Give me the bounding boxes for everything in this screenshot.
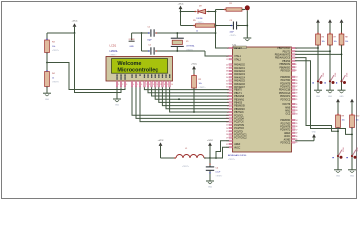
capacitor C4 xyxy=(206,167,222,178)
svg-text:38: 38 xyxy=(226,71,228,73)
svg-text:PB1/T1: PB1/T1 xyxy=(283,51,291,53)
svg-text:10k: 10k xyxy=(356,120,359,122)
svg-text:5: 5 xyxy=(227,102,228,104)
svg-text:AGND: AGND xyxy=(284,138,291,141)
LCD pin names xyxy=(116,74,170,79)
svg-text:3: 3 xyxy=(126,84,127,86)
wire LCD RW to U1 xyxy=(136,87,229,118)
svg-text:35: 35 xyxy=(226,80,228,82)
junction R2/rail xyxy=(193,111,195,113)
U1 right pin stubs and pin numbers xyxy=(292,47,298,144)
svg-text:1k: 1k xyxy=(196,31,198,33)
svg-text:PC2/TCK: PC2/TCK xyxy=(234,122,244,124)
svg-text:OC2: OC2 xyxy=(286,114,291,116)
junction R8/rail xyxy=(341,54,343,56)
svg-text:GND: GND xyxy=(312,132,317,134)
svg-text:SW3: SW3 xyxy=(345,73,347,77)
svg-text:32: 32 xyxy=(296,107,298,109)
junction C2 branch xyxy=(141,32,143,51)
svg-text:18: 18 xyxy=(296,89,298,91)
svg-text:26: 26 xyxy=(226,128,228,130)
capacitor C1 xyxy=(147,27,157,42)
U1 part name xyxy=(228,154,247,161)
junction XTAL1 corner xyxy=(215,32,217,34)
ground (top right) xyxy=(243,38,251,41)
svg-text:LCD1: LCD1 xyxy=(110,44,117,48)
svg-text:PB2/AIN0: PB2/AIN0 xyxy=(234,95,245,98)
svg-text:6: 6 xyxy=(141,84,142,86)
wire LCD VSS to ground xyxy=(116,87,118,99)
svg-text:2: 2 xyxy=(227,93,228,95)
svg-text:GND: GND xyxy=(328,96,333,98)
power +VCC (R6) xyxy=(316,19,320,34)
ground (divider) xyxy=(43,93,51,101)
wire D9 to node xyxy=(206,11,215,13)
LED D10 xyxy=(242,6,250,10)
junction VCC branch xyxy=(215,157,217,159)
wire divider node to LCD VEE xyxy=(47,63,125,90)
svg-text:PB3/AIN1: PB3/AIN1 xyxy=(234,98,245,101)
resistor R3 xyxy=(45,39,60,54)
svg-text:PB6/MISO: PB6/MISO xyxy=(234,109,245,111)
svg-text:GND: GND xyxy=(340,96,345,98)
LCD pin stubs and numbers xyxy=(116,81,173,87)
svg-text:40: 40 xyxy=(226,64,228,66)
svg-text:21: 21 xyxy=(296,99,298,101)
svg-text:Welcome: Welcome xyxy=(117,61,141,67)
svg-text:ATMEGA16 DIP40: ATMEGA16 DIP40 xyxy=(228,154,247,157)
wire XTAL1 down to U1 xyxy=(216,33,230,48)
svg-text:22: 22 xyxy=(226,115,228,117)
wire node to R1 xyxy=(216,9,227,11)
svg-text:PD7/OC2: PD7/OC2 xyxy=(281,99,291,101)
svg-text:PA4/ADC4: PA4/ADC4 xyxy=(234,76,245,79)
svg-text:33: 33 xyxy=(226,87,228,89)
svg-text:+VCC: +VCC xyxy=(178,3,184,5)
svg-text:AREF: AREF xyxy=(284,132,291,135)
svg-text:10k: 10k xyxy=(334,41,337,43)
svg-text:PD1/TXD: PD1/TXD xyxy=(281,123,291,125)
ground (SW1) xyxy=(314,90,322,98)
svg-text:SW2: SW2 xyxy=(334,73,336,77)
svg-text:PA0/ADC0: PA0/ADC0 xyxy=(234,64,245,67)
power flag GND (right) xyxy=(312,132,317,141)
wire LED down to ground xyxy=(246,11,248,38)
svg-text:PA5/ADC5: PA5/ADC5 xyxy=(234,80,245,83)
svg-text:RESET: RESET xyxy=(234,48,242,50)
wire R5 to C3 xyxy=(215,25,233,27)
wire VCC to LCD VDD xyxy=(75,33,122,93)
svg-text:32: 32 xyxy=(296,133,298,135)
svg-text:PC0/SCL: PC0/SCL xyxy=(234,115,244,117)
wire U1 to R10 column xyxy=(295,61,352,135)
svg-text:PD7/OC2: PD7/OC2 xyxy=(281,143,291,145)
svg-text:10k: 10k xyxy=(322,41,325,43)
svg-text:0.1uF: 0.1uF xyxy=(216,172,222,174)
wire C3 to ground leg xyxy=(237,25,248,27)
svg-text:20: 20 xyxy=(296,96,298,98)
svg-text:14: 14 xyxy=(296,77,298,79)
ground (SW5) xyxy=(348,170,356,178)
wire U1 to R9 column xyxy=(295,58,338,132)
wire U1 to GND flag xyxy=(295,140,314,142)
svg-text:PD3/INT1: PD3/INT1 xyxy=(280,130,291,132)
svg-text:PB4/SS: PB4/SS xyxy=(282,61,290,63)
svg-text:<TEXT>: <TEXT> xyxy=(216,175,223,178)
ground (SW3) xyxy=(338,90,346,98)
svg-text:PB0/T0: PB0/T0 xyxy=(234,90,242,92)
resistor R8 xyxy=(339,33,348,47)
crystal X1 xyxy=(171,32,195,52)
svg-text:36: 36 xyxy=(226,77,228,79)
svg-text:8: 8 xyxy=(296,70,297,72)
svg-text:AREF: AREF xyxy=(234,143,241,146)
junction C3 right xyxy=(246,25,248,27)
svg-text:PD6/ICP1: PD6/ICP1 xyxy=(280,96,291,98)
svg-text:17: 17 xyxy=(296,86,298,88)
wire VCC rail to R3 xyxy=(47,33,75,40)
U1 right pin labels xyxy=(275,48,291,144)
svg-text:PC1/SDA: PC1/SDA xyxy=(234,118,244,121)
svg-text:<TEXT>: <TEXT> xyxy=(52,49,60,52)
junction divider node xyxy=(46,62,48,64)
node +VCC (left) xyxy=(72,20,78,33)
svg-text:PC3/TMS: PC3/TMS xyxy=(234,125,244,127)
inductor L1 xyxy=(174,148,206,168)
svg-text:LM016L: LM016L xyxy=(110,51,119,53)
LCD LCD1 labels xyxy=(110,44,119,57)
ground (SW2) xyxy=(326,90,334,98)
capacitor C2 xyxy=(147,45,157,61)
svg-text:<TEXT>: <TEXT> xyxy=(52,81,60,84)
junction VCC node xyxy=(209,157,211,159)
svg-text:4: 4 xyxy=(133,84,134,86)
svg-text:17: 17 xyxy=(296,129,298,131)
svg-text:DIODE: DIODE xyxy=(197,18,204,20)
svg-text:AIN1: AIN1 xyxy=(285,110,291,113)
svg-text:PD4/OC1B: PD4/OC1B xyxy=(279,90,291,92)
svg-text:AVCC: AVCC xyxy=(234,146,240,149)
U1 left pin stubs and pin numbers xyxy=(226,47,232,149)
LCD LCD1 body xyxy=(106,57,173,82)
node +VCC (top) xyxy=(178,3,184,25)
svg-text:PA6/ADC6: PA6/ADC6 xyxy=(234,83,245,86)
svg-text:GND: GND xyxy=(45,99,50,101)
wire rail A xyxy=(181,11,197,13)
resistor R1 xyxy=(224,3,244,11)
ground (C4) xyxy=(206,181,214,189)
svg-text:14: 14 xyxy=(296,120,298,122)
svg-text:AVCC: AVCC xyxy=(284,135,290,138)
svg-text:PA3/ADC3: PA3/ADC3 xyxy=(234,73,245,76)
svg-text:PB7/SCK: PB7/SCK xyxy=(234,112,244,114)
power +VCC (R7) xyxy=(328,19,332,34)
svg-text:30: 30 xyxy=(296,136,298,138)
wire R4 to ground xyxy=(46,87,48,94)
svg-text:SW1: SW1 xyxy=(322,73,324,77)
svg-text:8: 8 xyxy=(227,112,228,114)
svg-text:33: 33 xyxy=(296,110,298,112)
svg-text:PD0/RXD: PD0/RXD xyxy=(280,120,290,122)
wire bus LCD D0-D7 to U1 PB0-PB7 xyxy=(144,87,229,112)
svg-text:PD0/RXD: PD0/RXD xyxy=(280,77,290,79)
svg-text:GND: GND xyxy=(350,175,355,177)
resistor R10 xyxy=(350,114,360,129)
junction at VCC/R3 rail xyxy=(74,32,76,34)
wire LCD E to U1 xyxy=(140,87,229,121)
svg-text:2: 2 xyxy=(122,84,123,86)
svg-text:+VCC: +VCC xyxy=(158,140,164,142)
resistor R4 xyxy=(45,70,60,88)
svg-text:<TEXT>: <TEXT> xyxy=(186,49,194,52)
svg-text:PC7/TOSC2: PC7/TOSC2 xyxy=(234,138,247,140)
svg-text:<TEXT>: <TEXT> xyxy=(228,158,236,161)
LCD screen xyxy=(112,59,168,74)
svg-text:34: 34 xyxy=(296,113,298,115)
svg-text:Microcontrolleç: Microcontrolleç xyxy=(117,68,158,74)
junction R10/rail xyxy=(351,134,353,136)
resistor R9 xyxy=(336,114,345,129)
svg-text:XTAL2: XTAL2 xyxy=(234,58,241,61)
svg-text:15: 15 xyxy=(296,80,298,82)
svg-text:19: 19 xyxy=(296,93,298,95)
svg-text:POWER: POWER xyxy=(129,39,136,41)
svg-text:PB3/AIN1/OC0: PB3/AIN1/OC0 xyxy=(275,57,291,60)
wire XTAL1 rail xyxy=(132,32,216,34)
svg-text:9: 9 xyxy=(153,84,154,86)
svg-text:+VCC: +VCC xyxy=(72,20,78,22)
wire R3-R4 xyxy=(46,53,48,72)
svg-text:PB6/MISO: PB6/MISO xyxy=(280,67,291,69)
svg-text:25: 25 xyxy=(226,125,228,127)
svg-text:GND: GND xyxy=(316,96,321,98)
svg-text:PD2/INT0: PD2/INT0 xyxy=(280,127,291,129)
svg-text:PA7/ADC7: PA7/ADC7 xyxy=(234,86,245,89)
wire R6 to button SW1 xyxy=(317,45,319,90)
junction R7/rail xyxy=(329,50,331,52)
diode D9 xyxy=(195,6,210,24)
wire rail B xyxy=(181,25,196,27)
svg-text:<TEXT>: <TEXT> xyxy=(199,86,207,89)
power +VCC (R8) xyxy=(340,19,344,34)
svg-text:21: 21 xyxy=(296,142,298,144)
svg-text:PB7/SCK: PB7/SCK xyxy=(281,71,291,73)
svg-text:SW5: SW5 xyxy=(356,147,358,151)
svg-text:GND: GND xyxy=(115,105,120,107)
wire U1 to R8 column xyxy=(295,53,341,55)
wire R2 to PB7 rail xyxy=(193,88,195,112)
svg-text:23: 23 xyxy=(226,118,228,120)
svg-text:8: 8 xyxy=(149,84,150,86)
wire VCC node to C4 xyxy=(209,158,210,167)
svg-text:PB5/MOSI: PB5/MOSI xyxy=(280,64,291,66)
svg-text:3: 3 xyxy=(227,96,228,98)
wire VCC node to U1 VCC xyxy=(216,141,229,158)
wire XTAL2 rail xyxy=(142,51,230,56)
junction rail A tap xyxy=(180,11,182,13)
wire U1 to R7 column xyxy=(295,50,330,52)
svg-text:28: 28 xyxy=(226,134,228,136)
junction R6/rail xyxy=(317,47,319,49)
svg-text:12: 12 xyxy=(226,59,228,61)
microcontroller U1 body xyxy=(233,47,292,152)
svg-text:PB4/SS: PB4/SS xyxy=(234,103,242,105)
svg-text:PA2/ADC2: PA2/ADC2 xyxy=(234,70,245,73)
svg-text:14: 14 xyxy=(171,84,173,86)
wire LCD RS to U1 xyxy=(132,87,229,115)
wire VCC node to U1 AVCC xyxy=(210,147,229,158)
power flag GND (crystal caps) xyxy=(129,33,136,48)
resistor R7 xyxy=(328,33,337,47)
svg-text:PD1/TXD: PD1/TXD xyxy=(281,80,291,82)
svg-text:15: 15 xyxy=(296,123,298,125)
svg-text:PD3/INT1: PD3/INT1 xyxy=(280,87,291,89)
wire R8 to button SW3 xyxy=(341,45,343,90)
LCD text line2 xyxy=(117,68,158,74)
microcontroller U1 reference label xyxy=(233,43,237,47)
resistor R5 xyxy=(193,20,217,33)
svg-text:10k: 10k xyxy=(199,83,202,85)
resistor R2 xyxy=(192,74,207,89)
capacitor C3 xyxy=(230,20,240,37)
svg-text:PB0/T0/XCK: PB0/T0/XCK xyxy=(277,48,290,50)
svg-text:1: 1 xyxy=(118,84,119,86)
svg-text:SW4: SW4 xyxy=(342,147,344,151)
svg-text:PB5/MOSI: PB5/MOSI xyxy=(234,106,245,108)
svg-text:7: 7 xyxy=(146,84,147,86)
ground (SW4) xyxy=(334,170,342,178)
resistor R6 xyxy=(316,33,325,47)
wire C4 to ground xyxy=(209,170,210,181)
wire U1 to R6 column xyxy=(295,47,318,49)
svg-text:1k: 1k xyxy=(52,78,54,80)
svg-text:PC5/TDI: PC5/TDI xyxy=(234,131,243,133)
svg-text:34: 34 xyxy=(226,84,228,86)
svg-text:31: 31 xyxy=(296,104,298,106)
junction vertical-216 top xyxy=(215,10,217,34)
svg-text:13: 13 xyxy=(226,56,228,58)
wire L1 to VCC node xyxy=(204,157,210,159)
node +VCC (L1) xyxy=(158,140,176,158)
svg-text:<TEXT>: <TEXT> xyxy=(182,165,190,168)
wire R7 to button SW2 xyxy=(329,45,331,90)
svg-text:PC4/TDO: PC4/TDO xyxy=(234,128,244,130)
svg-text:1: 1 xyxy=(227,89,228,91)
power +VCC (R10) xyxy=(350,99,354,115)
svg-text:+VCC: +VCC xyxy=(191,63,197,65)
svg-text:AIN0: AIN0 xyxy=(285,106,291,109)
svg-text:7: 7 xyxy=(227,109,228,111)
svg-text:16: 16 xyxy=(296,83,298,85)
wire R9 to button SW4 xyxy=(337,128,339,170)
power +VCC (R9) xyxy=(336,99,340,115)
svg-text:PB2/AIN0/INT2: PB2/AIN0/INT2 xyxy=(275,54,291,57)
svg-text:GND: GND xyxy=(336,175,341,177)
svg-text:CRYSTAL: CRYSTAL xyxy=(186,45,195,48)
wire R10 to button SW5 xyxy=(351,128,353,170)
svg-text:PD2/INT0: PD2/INT0 xyxy=(280,83,291,85)
svg-text:GND: GND xyxy=(208,187,213,189)
svg-text:37: 37 xyxy=(226,74,228,76)
svg-text:6: 6 xyxy=(296,64,297,66)
node +VCC (U1 supply) xyxy=(207,140,213,158)
junction on PB3 rail xyxy=(178,98,180,100)
svg-text:GND: GND xyxy=(129,46,134,48)
ground (LCD VSS) xyxy=(113,99,121,107)
push button SW1 xyxy=(313,73,324,84)
svg-text:10k: 10k xyxy=(52,46,55,48)
svg-text:4: 4 xyxy=(227,99,228,101)
svg-text:<TEXT>: <TEXT> xyxy=(230,34,237,37)
U1 left pin labels xyxy=(234,46,248,149)
svg-text:10k: 10k xyxy=(342,120,345,122)
svg-text:39: 39 xyxy=(226,68,228,70)
svg-text:29: 29 xyxy=(226,137,228,139)
push button SW5 xyxy=(347,147,358,158)
svg-text:5: 5 xyxy=(137,84,138,86)
svg-text:9: 9 xyxy=(227,48,228,50)
svg-text:XCK/T0: XCK/T0 xyxy=(282,104,291,106)
svg-text:27: 27 xyxy=(226,131,228,133)
svg-text:PC6/TOSC1: PC6/TOSC1 xyxy=(234,135,247,137)
node +VCC (R2) xyxy=(191,63,197,75)
svg-text:16: 16 xyxy=(296,126,298,128)
LCD text line1 xyxy=(117,61,141,67)
svg-text:+VCC: +VCC xyxy=(207,140,213,142)
svg-text:PA1/ADC1: PA1/ADC1 xyxy=(234,67,245,70)
svg-text:PB1/T1: PB1/T1 xyxy=(234,93,242,95)
svg-text:XTAL1: XTAL1 xyxy=(234,55,241,58)
svg-text:10k: 10k xyxy=(345,41,348,43)
junction R9/rail xyxy=(337,130,339,132)
push button SW2 xyxy=(325,73,336,84)
svg-text:7: 7 xyxy=(296,67,297,69)
svg-text:6: 6 xyxy=(227,105,228,107)
svg-text:PD5/OC1A: PD5/OC1A xyxy=(279,92,291,95)
push button SW3 xyxy=(336,73,347,84)
svg-text:24: 24 xyxy=(226,121,228,123)
push button SW4 xyxy=(333,147,344,158)
svg-text:32: 32 xyxy=(226,144,228,146)
